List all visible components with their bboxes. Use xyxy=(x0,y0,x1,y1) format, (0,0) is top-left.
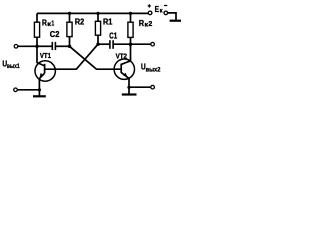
wire supply minus lead xyxy=(168,13,176,20)
node VT2 collector xyxy=(129,42,133,46)
ground bar left xyxy=(33,95,46,97)
wire output 2 top xyxy=(131,43,151,45)
label Ek xyxy=(155,5,164,15)
terminal output1 bottom xyxy=(14,88,18,92)
svg-text:R2: R2 xyxy=(75,18,85,27)
node B xyxy=(96,43,99,46)
junction rail R1 xyxy=(96,12,99,15)
junction rail Rk2 xyxy=(129,12,132,15)
wire VT2 emitter xyxy=(128,78,130,94)
svg-text:C1: C1 xyxy=(109,31,117,40)
label Uvyh1 xyxy=(2,59,19,70)
resistor R2 xyxy=(67,13,72,46)
terminal output2 bottom xyxy=(151,85,155,89)
label Rk1 xyxy=(42,19,54,29)
svg-text:VT1: VT1 xyxy=(40,51,51,60)
svg-text:VT2: VT2 xyxy=(116,51,127,60)
wire VT1 emitter xyxy=(38,79,40,95)
node VT2 emitter xyxy=(127,86,130,89)
node VT1 emitter xyxy=(38,88,41,91)
label minus sign xyxy=(164,5,167,7)
svg-text:вых1: вых1 xyxy=(7,63,20,70)
junction rail R2 xyxy=(68,12,71,15)
wire output 1 top xyxy=(18,45,37,47)
terminal supply minus xyxy=(164,11,168,15)
transistor VT1 xyxy=(35,61,55,81)
resistor Rk1 xyxy=(34,13,39,46)
wire VT1 collector xyxy=(36,46,38,63)
svg-text:R1: R1 xyxy=(103,18,113,27)
wire output 2 bottom xyxy=(129,86,151,88)
label Rk2 xyxy=(139,19,152,28)
svg-text:C2: C2 xyxy=(50,30,60,39)
resistor R1 xyxy=(95,13,100,44)
capacitor C2 xyxy=(37,42,70,50)
wire output 1 bottom xyxy=(17,89,39,91)
capacitor C1 xyxy=(98,40,131,49)
label Uvyh2 xyxy=(141,63,161,74)
label plus sign xyxy=(148,4,151,7)
node A xyxy=(68,45,72,49)
wire top supply rail xyxy=(37,12,148,14)
wire VT2 collector xyxy=(130,44,132,61)
transistor VT2 xyxy=(114,59,134,79)
terminal output2 top xyxy=(151,42,155,46)
svg-text:R: R xyxy=(139,19,144,28)
wire cross-coupling node A to VT2 base xyxy=(70,46,122,69)
resistor Rk2 xyxy=(128,13,133,44)
ground bar right xyxy=(122,93,137,95)
node VT1 collector xyxy=(35,45,39,49)
svg-text:1: 1 xyxy=(51,19,54,28)
terminal supply plus xyxy=(148,11,152,15)
svg-text:вых2: вых2 xyxy=(146,66,161,73)
ground bar supply xyxy=(170,20,181,22)
wire cross-coupling node B to VT1 base xyxy=(45,44,98,69)
terminal output1 top xyxy=(14,45,18,49)
svg-text:к: к xyxy=(160,7,164,14)
svg-text:2: 2 xyxy=(148,19,152,28)
